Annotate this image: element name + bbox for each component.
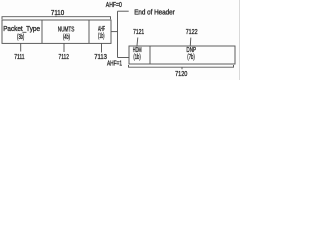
svg-text:7112: 7112 [59, 54, 70, 61]
svg-text:7121: 7121 [133, 29, 144, 36]
svg-text:7120: 7120 [175, 71, 187, 78]
svg-text:(4b): (4b) [63, 34, 70, 41]
svg-text:(7b): (7b) [187, 54, 195, 61]
svg-text:Packet_Type: Packet_Type [3, 26, 40, 33]
leader tick 7111 [20, 43, 22, 51]
leader tick 7122 [189, 38, 192, 46]
svg-text:7110: 7110 [51, 10, 64, 17]
svg-text:NUMTS: NUMTS [58, 27, 75, 34]
header row box 7110 [2, 20, 111, 43]
svg-text:(1b): (1b) [133, 54, 140, 61]
wire elbow to HDM box [118, 57, 130, 59]
leader tick 7112 [63, 43, 65, 52]
wire AHF stub [111, 31, 118, 33]
leader tick 7113 [101, 43, 103, 52]
svg-text:AHF=0: AHF=0 [106, 2, 122, 9]
wire elbow to End of Header [118, 10, 129, 12]
svg-text:(1b): (1b) [98, 33, 104, 40]
svg-text:(3b): (3b) [17, 34, 24, 41]
right page edge artifact [238, 0, 240, 80]
svg-text:End of Header: End of Header [134, 9, 175, 16]
svg-text:AHF: AHF [98, 26, 105, 33]
svg-text:7113: 7113 [94, 54, 107, 61]
wire trunk [117, 11, 119, 57]
second row box 7120 [129, 46, 235, 64]
svg-text:AHF=1: AHF=1 [107, 60, 122, 67]
svg-text:7111: 7111 [14, 54, 24, 61]
divider Packet_Type/NUMTS [41, 20, 43, 43]
divider NUMTS/AHF [88, 20, 90, 43]
brace over header row 7110 [2, 16, 111, 20]
leader tick 7121 [136, 38, 139, 46]
divider HDM/DNP [149, 46, 151, 64]
brace under second row 7120 [129, 65, 234, 69]
svg-text:7122: 7122 [186, 29, 198, 36]
